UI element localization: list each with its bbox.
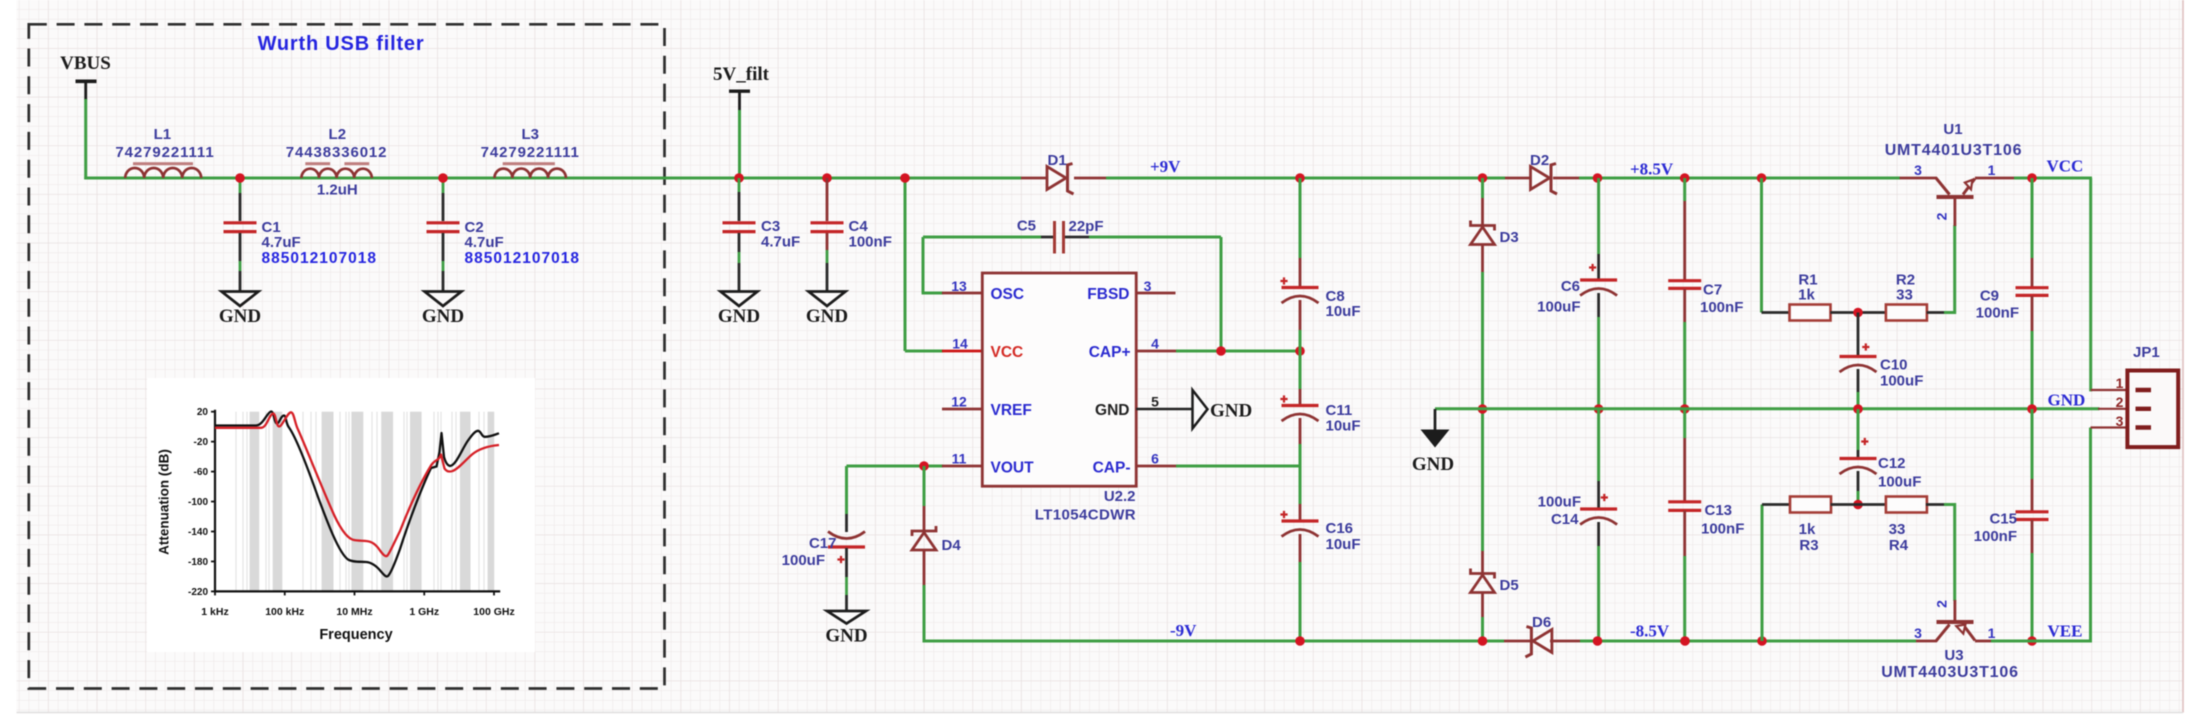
inductor L1 [125,168,201,178]
svg-text:74279221111: 74279221111 [481,144,580,161]
svg-text:1: 1 [2116,375,2124,391]
junction C14 rail [1593,636,1603,646]
wire C16 upper lead [1299,466,1302,504]
junction C3 bus [734,173,744,183]
ground C3 [721,292,758,307]
wire R3-R4 [1831,503,1887,506]
svg-text:D6: D6 [1532,614,1551,631]
dashed box Wurth USB filter region [29,24,665,688]
wire -8.5V rail [1580,640,1916,643]
plus C6 [1589,264,1596,271]
svg-text:10uF: 10uF [1326,303,1361,320]
plus C14 [1601,494,1608,501]
junction C13 rail [1680,636,1690,646]
svg-text:1 GHz: 1 GHz [409,606,439,618]
svg-text:3: 3 [1914,625,1922,641]
wire U3 base stub [1916,640,1937,643]
wire C11 upper lead [1299,351,1302,389]
svg-text:Wurth USB filter: Wurth USB filter [258,33,425,55]
wire R1-R2 [1830,311,1886,314]
svg-text:100uF: 100uF [1537,299,1580,316]
junction C6 gnd rail [1594,404,1604,414]
svg-text:3: 3 [1144,278,1152,294]
wire U3 emitter lead [1975,640,1991,643]
svg-text:-60: -60 [194,467,209,478]
pin 14 stub (VCC) [942,350,982,353]
wire D5 lower lead [1481,593,1484,618]
capacitor C2 [427,223,460,232]
wire C17 lower lead [845,548,848,577]
svg-text:100uF: 100uF [1880,373,1923,390]
wire 5V_filt to bus [738,110,741,178]
resistor R1 [1790,305,1831,321]
junction C2 bus [438,173,448,183]
svg-text:GND: GND [825,626,867,647]
diode D2 [1531,167,1550,190]
svg-text:100nF: 100nF [1700,299,1743,316]
capacitor C16 [1282,519,1319,522]
svg-text:L2: L2 [329,126,347,143]
wire R1 feed [1760,178,1763,313]
attenuation graph inset panel [147,378,535,652]
wire C15 lower lead [2031,520,2034,553]
wire C13 lower lead [1683,511,1686,557]
wire D2 cathode lead [1553,177,1579,180]
svg-text:GND: GND [2048,391,2086,410]
svg-text:100 GHz: 100 GHz [473,606,514,618]
resistor R2 [1886,305,1927,321]
wire U3 to VEE [1991,640,2092,643]
plus C17 [837,556,844,563]
junction C7 gnd rail [1680,404,1690,414]
svg-text:UMT4401U3T106: UMT4401U3T106 [1885,142,2023,159]
wire C6 lower lead [1597,293,1600,317]
svg-text:C14: C14 [1551,511,1579,528]
junction C1 bus [235,173,245,183]
svg-text:D2: D2 [1530,152,1549,169]
svg-text:-180: -180 [188,557,208,568]
svg-text:UMT4403U3T106: UMT4403U3T106 [1881,664,2019,681]
power port VBUS [76,80,97,84]
diode D1 [1047,167,1066,190]
svg-text:3: 3 [2116,413,2124,429]
svg-text:12: 12 [951,394,967,410]
wire OSC net to pin [922,292,943,295]
svg-text:Frequency: Frequency [319,627,392,643]
svg-text:C5: C5 [1017,218,1036,235]
connector JP1 body [2127,371,2178,448]
svg-text:20: 20 [197,407,209,418]
pin 5 stub (GND) [1136,408,1192,411]
wire C17 upper lead [845,466,848,514]
capacitor C8 [1282,286,1319,289]
svg-text:+8.5V: +8.5V [1630,160,1674,179]
capacitor C3 [723,223,756,232]
svg-text:FBSD: FBSD [1087,286,1129,303]
junction VCC C9 [2027,173,2037,183]
wire CAP- net [1176,465,1301,468]
capacitor C17 [828,545,865,548]
wire C8 lower lead [1299,300,1302,330]
wire C10 lower lead [1857,369,1860,392]
svg-text:1 kHz: 1 kHz [201,606,228,618]
ground arrow mid rail [1434,409,1437,430]
wire U1 emitter lead [1975,177,2014,180]
wire bus D1 to D2 [1106,177,1505,180]
svg-text:33: 33 [1896,287,1913,304]
capacitor C4 [811,223,844,232]
svg-text:-9V: -9V [1170,621,1197,640]
wire VCC drop horizontal [905,350,943,353]
svg-text:GND: GND [718,306,760,327]
wire VCC to JP1 pin1 [2089,178,2092,391]
wire VBUS vertical [84,99,87,179]
graph axes [215,410,500,592]
svg-text:885012107018: 885012107018 [262,250,377,267]
svg-text:U2.2: U2.2 [1104,488,1136,505]
wire C14 upper lead [1597,409,1600,481]
svg-text:GND: GND [806,306,848,327]
svg-text:1k: 1k [1799,521,1816,538]
junction R1 bus [1757,173,1767,183]
plus C11 [1280,395,1287,402]
wire main bus left [84,177,1021,180]
svg-text:U1: U1 [1943,121,1962,138]
svg-text:VOUT: VOUT [991,459,1035,476]
graph minor log gridline bands [250,412,260,592]
wire C4 upper lead [826,178,829,221]
svg-text:6: 6 [1151,451,1159,467]
svg-text:100nF: 100nF [1701,521,1744,538]
svg-text:CAP-: CAP- [1093,459,1131,476]
wire C12 upper lead [1857,409,1860,450]
pin 12 stub (VREF) [942,408,982,411]
wire C9 upper lead [2031,178,2034,258]
wire D2 anode lead [1505,177,1531,180]
pin 3 stub (FBSD) [1136,292,1175,295]
graph black curve [215,411,499,576]
svg-text:11: 11 [952,451,967,467]
svg-text:-220: -220 [188,587,208,598]
svg-text:10uF: 10uF [1326,536,1361,553]
svg-text:-8.5V: -8.5V [1630,622,1670,641]
junction C15 rail [2027,636,2037,646]
inductor L3 [495,169,566,178]
wire C5 to CAP+ horizontal [1089,236,1221,239]
wire C12 lower lead [1857,471,1860,491]
junction CAP+ C8 [1295,346,1305,356]
capacitor C7 [1668,281,1701,289]
svg-text:33: 33 [1889,521,1906,538]
svg-text:-140: -140 [188,527,208,538]
junction D3 gnd rail [1478,404,1488,414]
svg-text:R4: R4 [1889,537,1909,554]
svg-text:2: 2 [1933,212,1949,220]
svg-text:100nF: 100nF [849,234,892,251]
junction VOUT D4 [919,461,929,471]
svg-text:C7: C7 [1703,282,1722,299]
svg-text:22pF: 22pF [1069,218,1104,235]
transistor U3 [1936,625,1950,642]
capacitor C12 [1840,457,1877,460]
junction VCC drop bus [900,173,910,183]
JP1 inner pin stubs [2136,390,2152,428]
wire U1 base vertical [1953,225,1956,314]
svg-text:GND: GND [1095,402,1129,419]
wire U1 to VCC [2014,177,2092,180]
wire C5 to CAP+ vertical [1220,237,1223,351]
pin 4 stub (CAP+) [1136,350,1176,353]
svg-text:+9V: +9V [1150,157,1181,176]
junction C16 rail [1295,636,1305,646]
svg-text:VCC: VCC [991,344,1024,361]
svg-text:10uF: 10uF [1326,418,1361,435]
pin 11 stub (VOUT) [942,465,982,468]
wire D1 cathode lead [1074,177,1106,180]
svg-text:VBUS: VBUS [60,53,111,74]
ground pin5 power symbol [1193,390,1208,429]
wire C2 upper lead [442,178,445,193]
junction CAP+ C5 [1216,346,1226,356]
svg-text:5: 5 [1151,394,1159,410]
svg-text:4.7uF: 4.7uF [761,234,800,251]
diode D5 (zener) [1471,569,1495,579]
svg-text:CAP+: CAP+ [1089,344,1131,361]
resistor R3 [1790,497,1831,513]
svg-text:74438336012: 74438336012 [286,144,388,161]
svg-text:4: 4 [1151,336,1159,352]
capacitor C6 [1580,278,1617,281]
wire C1 lower lead [239,233,242,261]
svg-text:C10: C10 [1880,357,1908,374]
plus C12 [1861,438,1868,445]
wire D6 cathode lead [1504,640,1532,643]
svg-text:GND: GND [1210,401,1252,422]
power port 5V_filt [729,89,750,92]
plus C16 [1280,511,1287,518]
transistor U1 [1936,178,1950,195]
junction R1 R2 C10 [1853,308,1863,318]
svg-text:13: 13 [951,278,967,294]
ground C4 [809,292,846,307]
wire R2 right [1927,311,1944,314]
graph axis ticks [211,411,215,413]
svg-text:C9: C9 [1980,288,1999,305]
capacitor C1 [224,223,257,232]
wire R3 feed [1761,505,1764,642]
wire C16 lower lead [1299,534,1302,562]
svg-text:1: 1 [1988,625,1996,641]
wire U3 base vertical [1953,503,1956,601]
wire C14 lower lead [1597,522,1600,546]
wire C6 upper lead [1597,178,1600,254]
junction C4 bus [822,173,832,183]
wire VCC drop vertical [904,178,907,351]
wire D5 upper lead [1481,409,1484,551]
svg-text:LT1054CDWR: LT1054CDWR [1035,507,1136,524]
svg-text:U3: U3 [1944,647,1963,664]
inductor L2 [301,169,371,178]
wire GND to JP1 pin2 [2098,408,2136,410]
junction D3 bus [1478,173,1488,183]
svg-text:1: 1 [1988,162,1996,178]
wire OSC net vertical [922,237,925,293]
wire C13 upper lead [1683,409,1686,438]
wire C9 lower lead [2031,296,2034,331]
svg-text:C3: C3 [761,218,780,235]
wire VEE to JP1 pin3 [2089,428,2092,643]
svg-text:5V_filt: 5V_filt [713,64,770,85]
wire CAP+ net [1176,350,1301,353]
svg-text:100uF: 100uF [782,552,825,569]
svg-text:VCC: VCC [2047,157,2084,176]
svg-text:Attenuation (dB): Attenuation (dB) [157,449,172,555]
svg-text:VEE: VEE [2048,622,2083,641]
svg-text:GND: GND [422,306,464,327]
svg-text:GND: GND [219,306,261,327]
svg-text:74279221111: 74279221111 [115,144,214,161]
svg-text:4.7uF: 4.7uF [262,234,301,251]
wire VOUT net [847,465,944,468]
wire C1 upper lead [239,178,242,193]
wire C2 lower lead [442,233,445,261]
diode D4 (zener) [912,526,936,536]
wire C5 right lead [1065,236,1089,239]
svg-text:C16: C16 [1326,520,1354,537]
svg-text:D1: D1 [1048,152,1067,169]
plus C10 [1862,343,1869,350]
svg-text:D3: D3 [1500,229,1519,246]
wire C3 lower lead [738,233,741,252]
wire R4 right [1926,503,1944,506]
diode D3 (zener) [1471,221,1495,231]
junction R3 R4 C12 [1853,500,1863,510]
svg-text:C6: C6 [1561,278,1580,295]
wire C8 upper lead [1299,178,1302,258]
svg-text:D5: D5 [1500,577,1519,594]
svg-text:D4: D4 [942,537,962,554]
wire C7 lower lead [1683,289,1686,322]
junction C7 bus [1680,173,1690,183]
capacitor C15 [2016,512,2049,520]
svg-text:2: 2 [2116,394,2124,410]
svg-text:C13: C13 [1705,502,1733,519]
plus C8 [1280,277,1287,284]
svg-text:1.2uH: 1.2uH [317,182,358,199]
svg-text:-20: -20 [194,437,209,448]
wire D4 upper lead [923,466,926,506]
svg-text:2: 2 [1933,600,1949,608]
svg-text:14: 14 [952,336,968,352]
wire GND rail [1435,407,2100,410]
wire C15 upper lead [2031,409,2034,479]
svg-text:885012107018: 885012107018 [465,250,580,267]
capacitor C13 [1668,502,1701,511]
wire bus +8.5V [1579,177,1900,180]
ground C2 [425,292,462,307]
ground C1 [222,292,259,307]
svg-text:L3: L3 [521,126,539,143]
svg-text:C12: C12 [1878,455,1906,472]
svg-text:100uF: 100uF [1878,474,1921,491]
svg-text:C17: C17 [809,535,837,552]
ground C17 [827,611,866,624]
junction C8 bus [1295,173,1305,183]
wire D3 upper lead [1481,178,1484,198]
capacitor C5 [1055,221,1064,254]
wire D4 lower lead [923,550,926,585]
svg-text:C15: C15 [1989,511,2017,528]
wire U1 collector stub [1900,177,1937,180]
wire C11 lower lead [1299,418,1302,444]
pin 13 stub (OSC) [942,292,982,295]
svg-text:C11: C11 [1326,402,1353,419]
resistor R4 [1886,497,1927,513]
svg-text:L1: L1 [154,126,172,143]
svg-text:VREF: VREF [991,402,1032,419]
wire -9V rail [924,640,1504,643]
svg-text:100 kHz: 100 kHz [265,606,304,618]
junction C10 gnd rail [1853,404,1863,414]
wire C3 upper lead [738,178,741,192]
capacitor C14 [1580,507,1617,510]
wire D1 anode lead [1021,177,1047,180]
capacitor C9 [2016,288,2049,296]
wire OSC net horizontal C5 row [923,236,1041,239]
op-amp U2 body (LT1054 box) [982,273,1136,486]
svg-text:4.7uF: 4.7uF [465,234,504,251]
svg-text:100nF: 100nF [1976,305,2019,322]
svg-text:C4: C4 [849,218,869,235]
svg-text:100uF: 100uF [1538,494,1581,511]
svg-text:100nF: 100nF [1974,528,2017,545]
junction C9 gnd rail [2027,404,2037,414]
graph red curve [215,412,499,556]
svg-text:R3: R3 [1799,537,1818,554]
capacitor C10 [1840,355,1877,358]
svg-text:GND: GND [1412,454,1454,475]
svg-text:OSC: OSC [991,286,1025,303]
capacitor C11 [1282,404,1319,407]
svg-text:10 MHz: 10 MHz [336,606,372,618]
svg-text:-100: -100 [188,497,208,508]
wire C10 upper lead [1857,313,1860,357]
pin 6 stub (CAP-) [1136,465,1176,468]
wire C4 lower lead [826,233,829,250]
diode D6 [1533,630,1552,653]
junction +8.5V bus [1593,173,1603,183]
wire D6 anode lead [1550,640,1580,643]
wire C5 left lead [1041,236,1053,239]
junction D5 rail [1478,636,1488,646]
svg-text:3: 3 [1914,162,1922,178]
wire D3 lower lead [1481,245,1484,273]
wire C7 upper lead [1683,178,1686,201]
junction R3 rail [1757,636,1767,646]
svg-text:1k: 1k [1798,287,1815,304]
svg-text:JP1: JP1 [2133,344,2160,361]
